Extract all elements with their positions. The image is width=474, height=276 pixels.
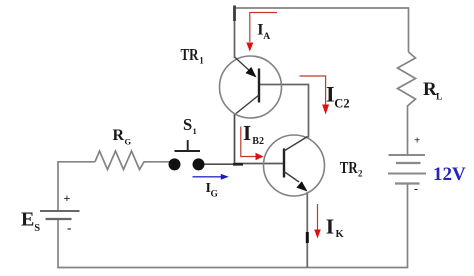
svg-text:L: L xyxy=(436,93,442,103)
svg-text:S: S xyxy=(34,223,40,234)
svg-text:C2: C2 xyxy=(334,97,349,111)
svg-text:+: + xyxy=(414,135,420,147)
svg-text:I: I xyxy=(326,215,334,239)
svg-text:+: + xyxy=(64,191,71,205)
svg-text:S: S xyxy=(183,115,192,134)
svg-text:E: E xyxy=(21,208,34,230)
svg-text:B2: B2 xyxy=(252,136,264,147)
svg-text:A: A xyxy=(263,32,270,42)
svg-text:TR: TR xyxy=(181,45,200,64)
svg-text:G: G xyxy=(125,136,132,146)
svg-text:R: R xyxy=(113,127,125,144)
svg-text:I: I xyxy=(243,121,251,145)
svg-text:-: - xyxy=(414,182,418,196)
svg-text:12V: 12V xyxy=(433,164,466,185)
svg-text:-: - xyxy=(67,220,71,235)
svg-text:1: 1 xyxy=(193,126,197,136)
svg-text:K: K xyxy=(336,229,345,240)
svg-text:R: R xyxy=(423,79,437,100)
svg-text:1: 1 xyxy=(199,56,204,66)
svg-text:I: I xyxy=(326,82,335,107)
svg-text:G: G xyxy=(211,190,219,200)
svg-text:2: 2 xyxy=(358,169,363,179)
svg-text:TR: TR xyxy=(340,158,359,177)
